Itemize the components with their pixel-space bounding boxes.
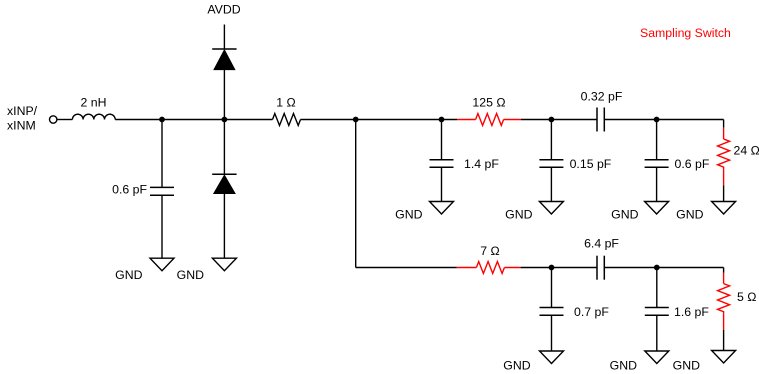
ground label GND [610, 359, 637, 373]
capacitor C4 0.32 pF series [597, 108, 604, 132]
wire node to capacitor 1.4pF [441, 120, 443, 160]
svg-text:GND: GND [610, 359, 637, 373]
svg-text:xINP/: xINP/ [7, 104, 38, 118]
capacitor C1 0.6 pF [150, 187, 174, 195]
diode D2 to ground [212, 174, 236, 193]
capacitor C7 6.4 pF series [597, 256, 604, 280]
svg-text:0.15 pF: 0.15 pF [570, 157, 612, 171]
wire 125ohm to cap 0.32pF [521, 119, 597, 121]
wire node to capacitor 1.6pF [656, 268, 658, 308]
ground label GND [676, 207, 703, 221]
svg-text:GND: GND [177, 268, 204, 282]
svg-text:0.7 pF: 0.7 pF [574, 305, 609, 319]
node junction cap 1.4pF [439, 117, 445, 123]
wire input to inductor [57, 119, 73, 121]
wire corner down to resistor 24 ohm [723, 120, 725, 128]
capacitor C5 0.6 pF [645, 160, 669, 168]
wire split node down to bottom branch [355, 120, 357, 268]
svg-text:0.6 pF: 0.6 pF [112, 182, 147, 196]
wire corner down to resistor 5 ohm [723, 268, 725, 273]
node junction cap 0.6pF right [654, 117, 660, 123]
svg-text:xINM: xINM [7, 119, 36, 133]
value label 0.6 pF [675, 157, 710, 171]
wire capacitor 0.7pF to ground [551, 315, 553, 351]
value label 0.15 pF [570, 157, 612, 171]
ground under 0.7pF [540, 351, 564, 364]
value label 5 ohm [737, 290, 756, 304]
diode D1 to AVDD [212, 49, 236, 70]
svg-text:0.6 pF: 0.6 pF [675, 157, 710, 171]
node junction cap 1.6pF [654, 265, 660, 271]
wire cap 6.4pF to corner bottom [604, 267, 723, 269]
wire capacitor 0.15pF to ground [550, 167, 552, 201]
wire node to diode D2 [223, 120, 225, 175]
wire AVDD to diode D1 [223, 25, 225, 50]
node label xINP/xINM [7, 104, 38, 133]
svg-text:GND: GND [611, 207, 638, 221]
wire resistor 5ohm to ground [723, 330, 725, 351]
annotation Sampling Switch [640, 26, 731, 40]
resistor R1 1 ohm [273, 114, 301, 126]
svg-text:24 Ω: 24 Ω [734, 143, 759, 157]
ground under 24 ohm [712, 202, 736, 215]
wire capacitor 0.6pF to ground [161, 195, 163, 258]
svg-text:7 Ω: 7 Ω [480, 244, 499, 258]
svg-text:1.6 pF: 1.6 pF [674, 305, 709, 319]
wire capacitor 0.6pF to ground [656, 167, 658, 201]
wire capacitor 1.6pF to ground [656, 315, 658, 351]
wire bottom branch [356, 267, 457, 269]
ground label GND [503, 359, 530, 373]
svg-text:GND: GND [503, 359, 530, 373]
ground under 1.4pF [430, 202, 454, 215]
value label 0.32 pF [581, 89, 623, 103]
ground under 1.6pF [645, 351, 669, 364]
svg-text:GND: GND [505, 207, 532, 221]
value label 1.6 pF [674, 305, 709, 319]
value label 1.4 pF [464, 157, 499, 171]
wire diode D1 to node [223, 70, 225, 120]
capacitor C2 1.4 pF [430, 160, 454, 168]
ground label GND [505, 207, 532, 221]
wire capacitor 1.4pF to ground [441, 167, 443, 201]
resistor R5 5 ohm [718, 273, 730, 330]
ground under 0.6pF [150, 258, 174, 271]
ground label GND [395, 207, 422, 221]
svg-text:GND: GND [676, 207, 703, 221]
svg-text:0.32 pF: 0.32 pF [581, 89, 623, 103]
value label 6.4 pF [584, 237, 619, 251]
node junction cap 0.15pF [549, 117, 555, 123]
capacitor C3 0.15 pF [539, 160, 563, 168]
inductor L1 [72, 114, 115, 119]
power label AVDD [207, 3, 240, 17]
wire node to capacitor 0.7pF [551, 268, 553, 308]
node junction diodes [222, 117, 228, 123]
ground under diode D2 [212, 258, 236, 271]
resistor R2 125 ohm [457, 114, 521, 126]
ground under 0.6pF right [645, 202, 669, 215]
capacitor C8 1.6 pF [645, 308, 669, 316]
capacitor C6 0.7 pF [540, 308, 564, 316]
svg-text:AVDD: AVDD [207, 3, 240, 17]
wire diode D2 to ground [223, 194, 225, 259]
svg-text:2 nH: 2 nH [81, 96, 107, 110]
wire node to capacitor 0.15pF [550, 120, 552, 160]
svg-text:1.4 pF: 1.4 pF [464, 157, 499, 171]
svg-text:GND: GND [395, 207, 422, 221]
ground label GND [115, 268, 142, 282]
node junction cap 0.6pF [159, 117, 165, 123]
value label 0.6 pF [112, 182, 147, 196]
wire inductor to resistor R 1ohm [115, 119, 272, 121]
resistor R4 7 ohm [457, 262, 521, 274]
wire 7ohm to cap 6.4pF [521, 267, 597, 269]
wire cap 0.32pF to corner [604, 119, 723, 121]
svg-text:GND: GND [115, 268, 142, 282]
input terminal [50, 116, 57, 123]
svg-text:6.4 pF: 6.4 pF [584, 237, 619, 251]
ground under 0.15pF [539, 202, 563, 215]
value label 125 ohm [472, 95, 505, 109]
wire node to capacitor 0.6pF right [656, 120, 658, 160]
svg-text:Sampling Switch: Sampling Switch [640, 26, 731, 40]
wire resistor 24ohm to ground [723, 185, 725, 201]
value label 1 ohm [276, 95, 295, 109]
value label 24 ohm [734, 143, 759, 157]
ground label GND [673, 359, 700, 373]
svg-text:125 Ω: 125 Ω [472, 95, 505, 109]
node junction split to bottom branch [353, 117, 359, 123]
value label 7 ohm [480, 244, 499, 258]
wire node to capacitor 0.6pF [161, 120, 163, 188]
svg-text:1 Ω: 1 Ω [276, 95, 295, 109]
svg-text:GND: GND [673, 359, 700, 373]
value label 2 nH [81, 96, 107, 110]
ground label GND [611, 207, 638, 221]
resistor R3 24 ohm [718, 128, 730, 186]
ground label GND [177, 268, 204, 282]
ground under 5 ohm [712, 351, 736, 364]
wire resistor to split node [301, 119, 458, 121]
value label 0.7 pF [574, 305, 609, 319]
node junction cap 0.7pF [549, 265, 555, 271]
svg-text:5 Ω: 5 Ω [737, 290, 756, 304]
